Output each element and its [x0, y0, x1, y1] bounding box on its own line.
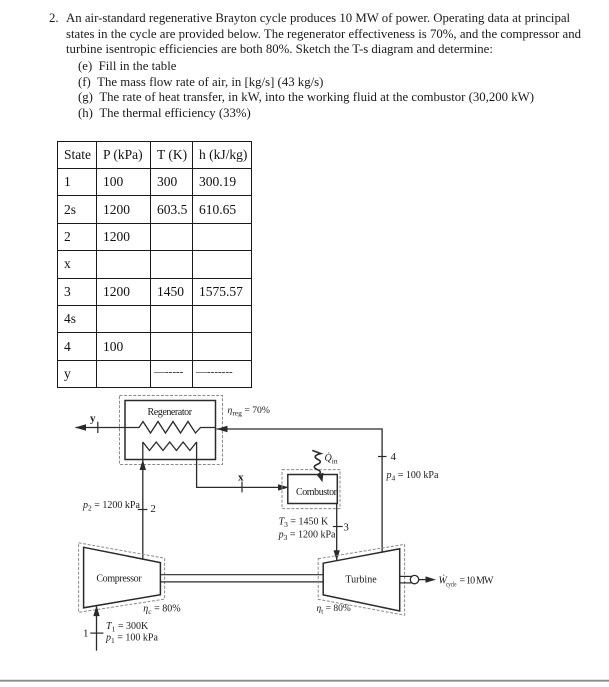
compressor body — [84, 547, 161, 608]
state-point data table — [57, 141, 252, 388]
Qin squiggle into combustor — [312, 450, 323, 482]
node x tick — [238, 472, 244, 493]
svg-text:Q̇in: Q̇in — [325, 452, 338, 465]
W_cycle label — [439, 575, 495, 589]
wire: compressor inlet (state 1) — [93, 606, 99, 651]
wire: regenerator to compressor (state 2 rising into regenerator) — [140, 442, 146, 559]
svg-text:Combustor: Combustor — [296, 487, 338, 498]
regenerator lower zigzag (compressed air stream) — [143, 442, 197, 451]
shaft between compressor and turbine — [160, 575, 323, 582]
svg-text:cycle: cycle — [446, 581, 457, 589]
svg-text:x: x — [238, 472, 244, 484]
svg-text:p1 = 100 kPa: p1 = 100 kPa — [105, 633, 158, 646]
Qin label — [325, 452, 338, 465]
wire: regenerator exit to left (state y) — [75, 424, 125, 430]
svg-text:ηt = 80%: ηt = 80% — [317, 604, 351, 615]
combustor box — [288, 475, 338, 504]
wire: turbine exhaust (state 4) to regenerator — [217, 426, 383, 552]
wire: regenerator to combustor (state x) — [197, 442, 289, 491]
regenerator upper zigzag (exhaust stream) — [125, 422, 216, 434]
svg-text:p2 = 1200 kPa: p2 = 1200 kPa — [82, 500, 140, 513]
svg-text:Turbine: Turbine — [345, 575, 377, 586]
regenerator U1 box — [125, 401, 216, 460]
turbine output shaft with coupling circle — [400, 575, 419, 583]
eta_t label — [317, 604, 351, 615]
problem statement text — [49, 12, 59, 25]
svg-text:p3 = 1200 kPa: p3 = 1200 kPa — [278, 530, 336, 543]
turbine outer dashed outline — [318, 544, 404, 615]
wire: work output arrow — [419, 576, 436, 582]
svg-text:ηc = 80%: ηc = 80% — [143, 604, 180, 617]
svg-text:4: 4 — [391, 451, 397, 463]
combustor outer dashed box — [282, 470, 340, 509]
node 1 tick — [83, 628, 103, 640]
node 3 tick — [333, 522, 350, 534]
svg-text:y: y — [90, 413, 96, 425]
svg-text:1: 1 — [83, 628, 89, 640]
compressor outer dashed outline — [79, 543, 165, 613]
wire: combustor to turbine (state 3) — [334, 504, 340, 561]
eta_reg label — [228, 405, 270, 418]
regenerator outer dashed box — [120, 396, 223, 465]
T1 p1 labels — [105, 621, 158, 645]
node 4 tick — [378, 451, 397, 463]
node 2 tick — [138, 503, 156, 515]
svg-text:= 10 MW: = 10 MW — [460, 576, 495, 587]
p2 label — [82, 500, 140, 513]
svg-text:Compressor: Compressor — [96, 574, 142, 585]
svg-text:2: 2 — [150, 503, 156, 515]
svg-text:ηreg = 70%: ηreg = 70% — [228, 405, 270, 418]
svg-text:p4 = 100 kPa: p4 = 100 kPa — [386, 470, 439, 483]
p4 label — [386, 470, 439, 483]
node y tick — [90, 413, 98, 434]
eta_c label — [143, 604, 180, 617]
svg-text:3: 3 — [343, 522, 349, 534]
T3 p3 labels — [278, 517, 336, 543]
svg-text:T3 = 1450 K: T3 = 1450 K — [279, 517, 329, 530]
bottom page rule — [0, 680, 609, 682]
turbine body — [323, 549, 400, 611]
svg-text:Regenerator: Regenerator — [148, 407, 193, 418]
